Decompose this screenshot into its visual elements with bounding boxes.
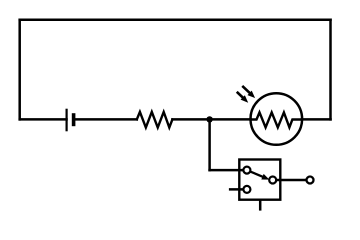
switch blade arrowhead <box>261 174 269 180</box>
wire photoresistor to right side <box>302 118 331 121</box>
wire junction down <box>208 119 211 170</box>
switch terminal bottom-left <box>243 186 250 193</box>
open output terminal <box>307 177 314 184</box>
node junction dot <box>206 116 212 122</box>
wire top of loop <box>20 19 331 22</box>
wire stub bottom of box <box>259 200 262 211</box>
wire resistor to junction to photoresistor <box>172 118 250 121</box>
wire switch common to output terminal <box>273 179 310 182</box>
switch box S1 <box>239 160 280 200</box>
switch terminal top-left <box>243 167 250 174</box>
switch blade shaft <box>250 171 264 177</box>
switch terminal right common <box>269 177 276 184</box>
light arrow 2 shaft <box>238 93 244 99</box>
light arrow 1 shaft <box>243 87 250 94</box>
battery cell B1 short thick plate <box>72 113 76 126</box>
resistor R1 <box>137 112 173 128</box>
wire battery to resistor <box>74 118 137 121</box>
wire left side of loop <box>18 20 21 120</box>
photoresistor LDR1 circle <box>250 93 302 145</box>
photoresistor LDR1 zigzag element <box>251 112 302 127</box>
light arrow 2 head <box>241 95 249 103</box>
wire bottom-left corner to battery <box>20 118 67 121</box>
wire right side of loop <box>329 20 332 120</box>
wire down-leg to switch box <box>210 169 247 172</box>
light arrow 1 head <box>247 91 255 98</box>
battery cell B1 long plate <box>65 109 67 132</box>
wire stub at lower-left terminal <box>229 188 247 191</box>
